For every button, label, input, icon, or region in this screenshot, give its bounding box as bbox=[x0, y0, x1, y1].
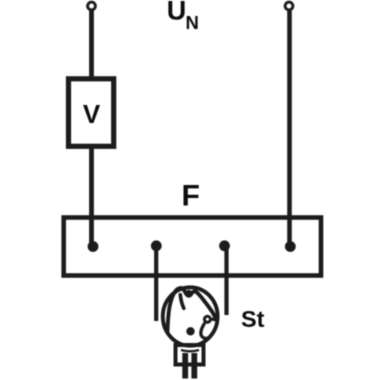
svg-text:N: N bbox=[186, 12, 199, 33]
svg-text:F: F bbox=[182, 180, 200, 213]
svg-text:U: U bbox=[167, 0, 187, 26]
svg-text:V: V bbox=[83, 99, 101, 129]
svg-text:St: St bbox=[241, 306, 265, 332]
